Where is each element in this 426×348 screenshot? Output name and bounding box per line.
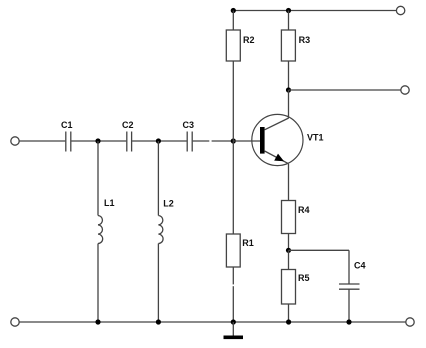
wire R5 to bottom rail — [288, 304, 290, 322]
svg-text:R1: R1 — [242, 238, 254, 248]
wire base junction to R1 — [232, 141, 234, 234]
wire node to R5 — [288, 250, 290, 269]
svg-text:C2: C2 — [122, 120, 134, 130]
svg-text:R3: R3 — [299, 35, 311, 45]
wire rail to R3 — [288, 11, 290, 31]
wire emitter node to C4 — [289, 250, 350, 284]
svg-text:R2: R2 — [243, 35, 255, 45]
wire R3 to collector node — [288, 61, 290, 90]
transistor VT1 — [252, 114, 303, 165]
node collector output — [286, 87, 291, 92]
capacitor C4 — [339, 284, 360, 289]
capacitor C1 — [66, 132, 71, 152]
node bottom R5 — [286, 319, 291, 324]
svg-text:L2: L2 — [163, 199, 174, 209]
svg-text:VT1: VT1 — [307, 133, 324, 143]
wire emitter to R4 — [288, 164, 290, 201]
inductor L2 — [158, 141, 163, 322]
wire base junction to transistor base — [233, 140, 260, 142]
terminal top right — [396, 6, 404, 14]
wire rail to R2 — [232, 11, 234, 31]
terminal bottom left — [11, 318, 19, 326]
svg-text:R4: R4 — [298, 205, 310, 215]
node top rail R2 — [231, 8, 236, 13]
capacitor C3 — [187, 132, 192, 152]
node bottom L2 — [156, 319, 161, 324]
wire C4 to bottom rail — [348, 289, 350, 322]
resistor R4 — [282, 201, 296, 234]
resistor R2 — [226, 30, 240, 61]
terminal bottom right — [406, 318, 414, 326]
node bottom C4 — [346, 319, 351, 324]
wire C3 to base column — [193, 140, 234, 142]
wire R2 to base junction — [232, 61, 234, 141]
node bottom L1 — [95, 319, 100, 324]
terminal output right — [401, 86, 409, 94]
svg-text:C4: C4 — [354, 261, 366, 271]
wire C2 to C3 — [132, 140, 187, 142]
wire R1 to bottom rail — [232, 267, 234, 322]
svg-text:C3: C3 — [183, 120, 195, 130]
node top rail R3 — [286, 8, 291, 13]
node L2 junction — [156, 138, 161, 143]
inductor L1 — [98, 141, 103, 322]
bottom rail — [19, 321, 405, 323]
svg-text:R5: R5 — [298, 273, 310, 283]
wire input to C1 — [19, 140, 65, 142]
node emitter divider — [286, 248, 291, 253]
node base junction — [231, 138, 236, 143]
resistor R5 — [282, 270, 296, 305]
svg-text:L1: L1 — [104, 198, 115, 208]
resistor R1 — [226, 234, 240, 267]
top rail — [233, 10, 396, 12]
wire R4 to emitter node — [288, 234, 290, 251]
capacitor C2 — [127, 132, 132, 152]
wire collector node to output terminal — [289, 89, 401, 91]
node bottom R1 — [231, 319, 236, 324]
ground — [224, 322, 244, 339]
svg-text:C1: C1 — [61, 120, 73, 130]
wire collector node down to transistor — [288, 90, 290, 118]
resistor R3 — [281, 30, 295, 61]
node L1 junction — [95, 138, 100, 143]
wire C1 to C2 — [71, 140, 126, 142]
terminal input left — [11, 137, 19, 145]
